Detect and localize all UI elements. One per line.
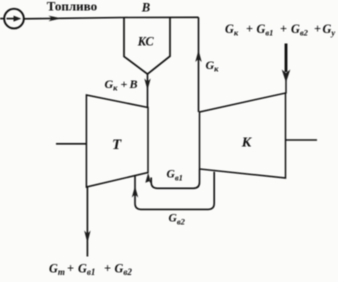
svg-text:В: В: [141, 1, 150, 15]
arrow on fuel line: [49, 16, 62, 22]
combustion chamber KC vessel: [124, 17, 170, 74]
fuel source circle: [0, 9, 24, 29]
compressor shaft: [286, 139, 318, 141]
turbine shaft: [56, 143, 86, 145]
wire Gv2 cooling loop outer: [135, 172, 214, 210]
svg-text:К: К: [241, 136, 253, 151]
arrow Gk+B into turbine: [144, 79, 150, 91]
svg-text:Т: Т: [112, 137, 122, 153]
arrow Gk up on riser: [195, 50, 201, 62]
wire compressor air inlet (thick): [285, 44, 288, 73]
wire Gv1 cooling loop compressor to turbine: [151, 170, 199, 189]
label air inlet sum: [225, 22, 335, 38]
label Gk plus B: [105, 77, 138, 93]
svg-text:+: +: [67, 262, 74, 276]
svg-text:+: +: [246, 22, 253, 36]
wire turbine exhaust down: [86, 187, 88, 257]
turbine T body: [86, 95, 148, 187]
wire compressor discharge riser up to fuel line: [198, 17, 200, 112]
wire KC outlet down to turbine inlet: [147, 74, 149, 108]
svg-text:КС: КС: [137, 34, 155, 48]
arrow Gv1 into turbine bottom: [145, 173, 151, 185]
svg-text:Топливо: Топливо: [47, 0, 97, 14]
wire fuel line to KC top and corner to compressor riser: [24, 17, 199, 19]
svg-text:+: +: [121, 77, 128, 91]
svg-text:В: В: [129, 77, 138, 91]
svg-text:+: +: [104, 262, 111, 276]
arrow air inlet down (bold): [282, 70, 291, 83]
arrow Gv2 up into turbine bottom: [132, 186, 138, 198]
svg-text:+: +: [314, 22, 321, 36]
label exhaust sum: [49, 262, 132, 278]
svg-text:+: +: [280, 22, 287, 36]
compressor K body: [200, 93, 286, 178]
arrow exhaust down: [84, 231, 90, 244]
